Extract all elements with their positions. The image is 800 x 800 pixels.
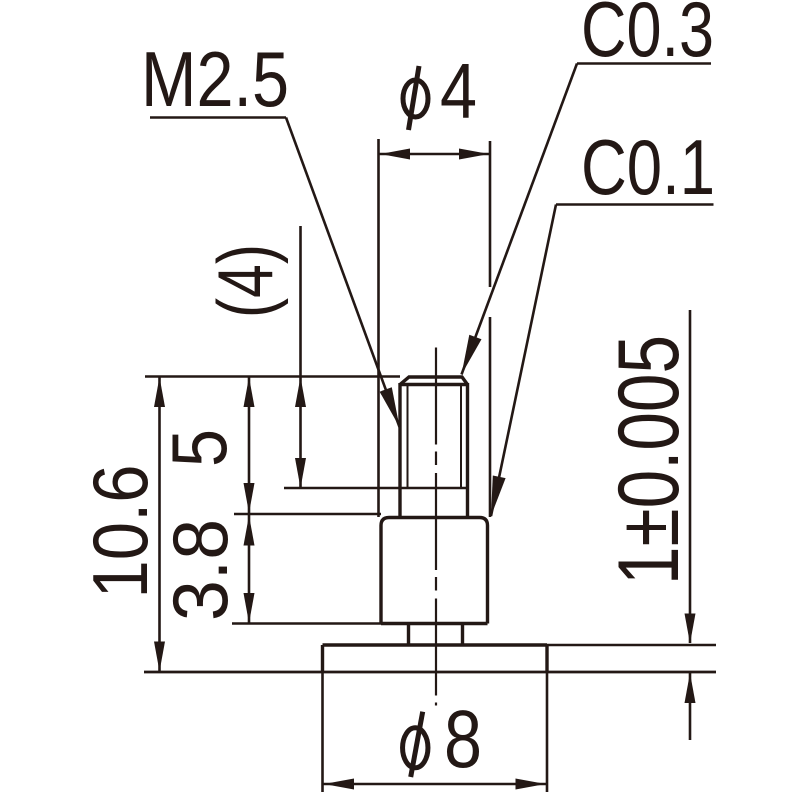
svg-text:1±0.005: 1±0.005 [601, 335, 697, 585]
svg-text:M2.5: M2.5 [141, 35, 289, 123]
svg-text:(4): (4) [201, 244, 289, 318]
svg-text:8: 8 [444, 694, 482, 785]
svg-text:C0.1: C0.1 [581, 123, 715, 211]
svg-text:4: 4 [440, 47, 477, 135]
svg-text:C0.3: C0.3 [581, 0, 714, 73]
svg-text:3.8: 3.8 [156, 519, 244, 621]
svg-text:10.6: 10.6 [76, 465, 164, 599]
svg-text:5: 5 [155, 429, 243, 467]
